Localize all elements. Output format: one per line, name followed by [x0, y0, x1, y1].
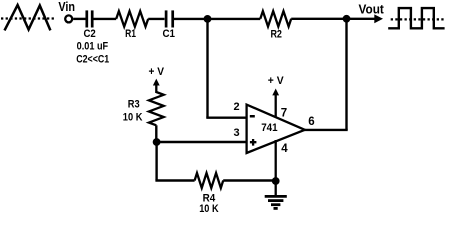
wire R3 bottom to junction	[155, 125, 157, 143]
svg-text:2: 2	[234, 101, 240, 113]
wire R4 to ground node	[223, 179, 276, 181]
svg-text:6: 6	[308, 116, 314, 128]
resistor R2	[260, 11, 291, 26]
svg-text:C2<<C1: C2<<C1	[76, 54, 109, 66]
svg-text:741: 741	[261, 122, 277, 134]
resistor R3	[149, 92, 164, 125]
wire pin 2 horizontal	[206, 116, 246, 118]
+V arrow above pin 7	[272, 89, 279, 96]
wire terminal to C2	[73, 18, 85, 20]
wire output feedback vertical	[345, 19, 347, 130]
Vout arrow wire	[347, 14, 384, 23]
svg-text:Vout: Vout	[359, 3, 385, 17]
pin 7 supply wire	[275, 94, 277, 118]
wire R1 to C1	[148, 18, 164, 20]
svg-text:R2: R2	[270, 29, 282, 41]
wire pin 3 horizontal	[157, 141, 247, 143]
capacitor C1	[166, 10, 173, 27]
svg-text:+ V: + V	[149, 66, 165, 78]
resistor R4	[195, 173, 224, 188]
junction node C (ground node)	[272, 177, 280, 185]
svg-text:C2: C2	[83, 28, 95, 40]
junction node B (pin 3 node)	[153, 138, 161, 146]
svg-text:Vin: Vin	[58, 0, 75, 14]
op-amp U1 741	[247, 105, 305, 153]
wire R2 to output node	[291, 18, 346, 20]
wire feedback left vertical (node A down to pin 2)	[206, 19, 208, 118]
input terminal circle	[65, 15, 72, 22]
pin 4 ground wire	[275, 140, 277, 181]
svg-text:10 K: 10 K	[199, 203, 218, 214]
svg-text:R1: R1	[125, 28, 136, 40]
svg-text:+ V: + V	[268, 75, 284, 87]
+V arrow above R3	[153, 79, 160, 93]
junction node A (top feedback node)	[204, 15, 212, 23]
svg-text:R3: R3	[128, 98, 140, 110]
svg-text:7: 7	[281, 107, 287, 119]
resistor R1	[116, 11, 148, 26]
wire output pin 6	[304, 129, 348, 131]
ground	[265, 181, 287, 208]
svg-text:10 K: 10 K	[123, 112, 143, 124]
junction node output	[343, 15, 351, 23]
wire node B down	[155, 142, 157, 181]
input triangle-wave symbol	[1, 5, 54, 30]
output square-wave symbol	[388, 8, 444, 28]
svg-text:0.01 uF: 0.01 uF	[77, 41, 109, 53]
svg-text:3: 3	[234, 127, 240, 139]
capacitor C2	[87, 10, 92, 27]
svg-text:C1: C1	[162, 28, 175, 40]
svg-text:4: 4	[281, 143, 288, 155]
wire C2 to R1	[93, 18, 116, 20]
wire C1 to R2	[174, 18, 260, 20]
wire bottom left to R4	[155, 179, 194, 181]
